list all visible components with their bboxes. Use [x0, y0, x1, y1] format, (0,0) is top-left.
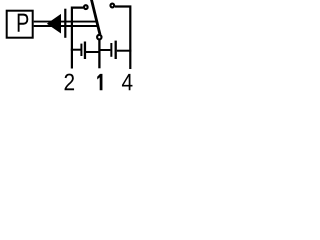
fixed contact circle (NO, terminal 4)	[110, 4, 114, 8]
contact gap 2-1: wire to terminal 1	[86, 51, 99, 53]
contact gap 2-1: wire from terminal 2	[71, 49, 81, 51]
mechanical linkage double line (lower)	[34, 25, 99, 27]
fixed contact circle (NC, terminal 2)	[84, 5, 88, 9]
terminal label 1	[97, 74, 102, 90]
contact gap 2-1: tall bar	[84, 42, 86, 60]
contact gap 1-4: wire to terminal 4	[117, 50, 132, 52]
pivot circle (terminal 1)	[97, 35, 101, 40]
terminal label 2	[65, 74, 75, 91]
contact gap 1-4: tall bar	[115, 41, 117, 59]
terminal label 4	[122, 74, 133, 90]
plunger bar	[64, 9, 66, 38]
switch lever	[91, 0, 100, 35]
contact gap 2-1: short bar	[80, 44, 82, 56]
terminal 2 vertical wire	[72, 8, 83, 69]
contact gap 1-4: short bar	[110, 43, 112, 57]
actuator arrow (solid triangle pointing left)	[47, 14, 61, 34]
label P	[18, 14, 29, 32]
mechanical linkage double line (upper)	[34, 21, 98, 23]
terminal 1 vertical wire	[98, 40, 100, 68]
contact gap 1-4: wire from terminal 1	[99, 49, 110, 51]
pressure actuator box P	[7, 11, 33, 38]
terminal 4 wire top	[115, 7, 130, 70]
